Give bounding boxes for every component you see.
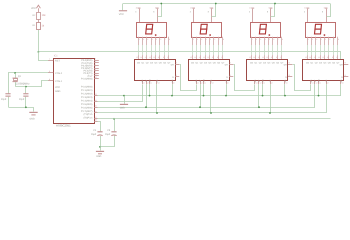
decimal point [269, 34, 271, 36]
svg-text:6: 6 [273, 38, 274, 41]
svg-text:P1.2(AIN2): P1.2(AIN2) [81, 93, 93, 96]
node junction [210, 112, 212, 114]
svg-text:4: 4 [152, 38, 153, 41]
wire SCK tap (SH pin) [149, 84, 151, 96]
wire RCK tap (ST pin) [200, 84, 202, 107]
pin XTAL1 (left) [48, 80, 53, 82]
wire SER data (MCU to IC2 DS) [98, 85, 143, 102]
wire XTAL1 net [16, 81, 49, 87]
ground symbol (crystal) [29, 112, 37, 113]
wire segment line [337, 45, 339, 55]
svg-text:G: G [285, 76, 287, 79]
svg-text:3: 3 [95, 60, 96, 63]
pin P3.0(RXD) (right stub) [94, 60, 99, 62]
pin P3.3(INT1) (right stub) [94, 68, 99, 70]
display segment pin [218, 37, 220, 45]
display segment pin [138, 37, 140, 45]
wire from P1 pin to capacitor C4 [98, 122, 101, 132]
wire segment line [218, 45, 220, 55]
display segment pin [222, 37, 224, 45]
driver input pin [159, 55, 161, 59]
svg-text:14: 14 [95, 99, 97, 102]
svg-text:P1.6(AIN6): P1.6(AIN6) [81, 106, 93, 109]
svg-text:11: 11 [95, 73, 97, 76]
pin SH (bottom) [318, 81, 320, 85]
wire OE tap [270, 84, 272, 113]
pin P1.1 (right) [94, 95, 98, 97]
svg-text:11: 11 [266, 56, 268, 59]
decimal point [155, 34, 157, 36]
pin P1.6 (right) [94, 121, 98, 123]
wire segment line [196, 45, 198, 55]
svg-text:9: 9 [217, 56, 218, 59]
wire segment line [200, 45, 202, 55]
svg-text:P3.2(INT0): P3.2(INT0) [81, 64, 92, 67]
wire SCK tap (SH pin) [318, 84, 320, 96]
svg-text:OE: OE [269, 79, 272, 82]
svg-text:QH: QH [171, 63, 175, 66]
svg-text:10: 10 [212, 56, 214, 59]
pin P1.3 (right) [94, 107, 98, 109]
svg-text:4: 4 [321, 38, 322, 41]
driver input pin [205, 55, 207, 59]
wire [101, 136, 115, 151]
svg-text:15: 15 [249, 56, 251, 59]
svg-text:Q3: Q3 [204, 62, 208, 65]
wire segment line [311, 45, 313, 55]
wire segment line [155, 45, 157, 55]
svg-text:GND: GND [120, 107, 125, 110]
pin P1.2 (right) [94, 101, 98, 103]
svg-text:MR: MR [340, 79, 343, 83]
display LED1 common-anode pin leads (top) [139, 9, 141, 22]
node junction [171, 95, 173, 97]
wire SCK tap (SH pin) [203, 84, 205, 96]
svg-text:15: 15 [95, 105, 97, 108]
supply rail VCC (top) [123, 3, 330, 5]
svg-text:G: G [226, 76, 228, 79]
svg-text:Q1: Q1 [141, 62, 145, 65]
driver input pin [146, 55, 148, 59]
IC IC3 74HC595 shift register [189, 60, 230, 81]
svg-text:QH: QH [225, 63, 229, 66]
svg-text:ST: ST [199, 79, 202, 82]
pin SH (bottom) [203, 81, 205, 85]
svg-text:5: 5 [210, 38, 211, 41]
svg-text:VCC: VCC [119, 13, 124, 16]
wire riser to VCC rail [271, 4, 275, 17]
pin ST (bottom) [314, 81, 316, 85]
svg-text:8: 8 [153, 11, 154, 14]
display segment pin [328, 37, 330, 45]
pin GND (right) [229, 76, 233, 78]
display segment pin [315, 37, 317, 45]
node rail junction [160, 3, 162, 5]
7-segment display LED3 [251, 23, 281, 38]
svg-text:5: 5 [156, 38, 157, 41]
node cap tap [25, 86, 27, 88]
svg-text:10k: 10k [42, 14, 47, 17]
wire tap (MR pin) [172, 84, 174, 96]
svg-text:MR: MR [171, 79, 174, 83]
display segment pin [259, 37, 261, 45]
pin SH (bottom) [262, 81, 264, 85]
display segment pin [209, 37, 211, 45]
svg-text:SH: SH [317, 79, 320, 82]
svg-text:XTAL2: XTAL2 [55, 72, 63, 75]
svg-text:SH: SH [202, 79, 205, 82]
driver input pin [264, 55, 266, 59]
wire OE tap [326, 84, 328, 113]
wire segment line [213, 45, 215, 55]
svg-text:14: 14 [309, 56, 311, 59]
svg-text:16: 16 [95, 110, 97, 113]
node junction [318, 95, 320, 97]
svg-text:P1.7(AIN7): P1.7(AIN7) [81, 110, 93, 113]
pin P3.1(TXD) (right stub) [94, 62, 99, 64]
svg-text:OE: OE [210, 79, 213, 82]
7-segment display LED4 [306, 23, 336, 38]
svg-text:14: 14 [253, 56, 255, 59]
svg-text:9: 9 [176, 62, 177, 65]
display segment pin [155, 37, 157, 45]
svg-text:2: 2 [197, 38, 198, 41]
svg-text:7: 7 [278, 38, 279, 41]
svg-text:2: 2 [256, 38, 257, 41]
svg-text:GND: GND [30, 118, 35, 121]
svg-text:8: 8 [282, 38, 283, 41]
wire OE tap [156, 84, 158, 113]
display segment pin [146, 37, 148, 45]
svg-text:10µF: 10µF [105, 133, 111, 136]
wire segment line [146, 45, 148, 55]
svg-text:3: 3 [147, 38, 148, 41]
display segment pin [200, 37, 202, 45]
wire segment line [222, 45, 224, 55]
pin P3.4(T0) (right stub) [94, 70, 99, 72]
wire segment line [138, 45, 140, 55]
driver input pin [277, 55, 279, 59]
svg-text:XTAL1: XTAL1 [55, 80, 63, 83]
svg-text:10: 10 [158, 56, 160, 59]
wire segment line [272, 45, 274, 55]
svg-text:Q2: Q2 [315, 62, 319, 65]
node junction [149, 95, 151, 97]
display segment pin [251, 37, 253, 45]
svg-text:G: G [341, 76, 343, 79]
pin RST (left) [48, 60, 53, 62]
svg-text:1k: 1k [42, 25, 45, 28]
7-segment display LED2 [192, 23, 222, 38]
power VCC symbol (reset chain, top-left) [36, 5, 40, 8]
wire segment line [307, 45, 309, 55]
svg-text:8: 8 [221, 56, 222, 59]
svg-text:8: 8 [267, 11, 268, 14]
wire serial chain QH' to next DS [293, 65, 311, 91]
driver input pin [315, 55, 317, 59]
svg-text:9: 9 [163, 56, 164, 59]
svg-text:P1.0(AIN0): P1.0(AIN0) [81, 86, 93, 89]
svg-text:Q5: Q5 [159, 62, 163, 65]
display segment pin [272, 37, 274, 45]
svg-text:ST: ST [258, 79, 261, 82]
svg-text:AT89C2051: AT89C2051 [56, 124, 71, 128]
display LED3 common-anode pin leads (top) [252, 9, 254, 22]
svg-text:6: 6 [329, 38, 330, 41]
svg-text:RST: RST [55, 59, 60, 62]
IC IC5 74HC595 shift register [303, 60, 344, 81]
driver input pin [307, 55, 309, 59]
svg-text:Q2: Q2 [259, 62, 263, 65]
svg-text:8: 8 [167, 56, 168, 59]
pin P3.7 (right stub) [94, 75, 99, 77]
svg-text:13: 13 [95, 93, 97, 96]
node [25, 106, 27, 108]
svg-text:C5: C5 [107, 129, 111, 132]
svg-text:QH: QH [284, 63, 288, 66]
pin MR (bottom) [284, 81, 286, 85]
driver input pin [196, 55, 198, 59]
driver input pin [324, 55, 326, 59]
IC U1 AT89C2051 microcontroller [54, 59, 95, 124]
wire segment line [209, 45, 211, 55]
svg-text:3: 3 [260, 38, 261, 41]
wire segment line [328, 45, 330, 55]
svg-text:13: 13 [199, 56, 201, 59]
wire [15, 73, 17, 78]
svg-text:P3.5(T1): P3.5(T1) [83, 72, 92, 75]
svg-text:Q1: Q1 [195, 62, 199, 65]
svg-text:13: 13 [145, 56, 147, 59]
wire riser to VCC rail [327, 4, 331, 17]
svg-text:OE: OE [156, 79, 159, 82]
svg-text:ST: ST [314, 79, 317, 82]
svg-text:Q6: Q6 [163, 62, 167, 65]
wire serial chain QH' to next DS [234, 65, 255, 91]
wire segment line [142, 45, 144, 55]
wire tap (MR pin) [226, 84, 228, 96]
display segment pin [264, 37, 266, 45]
node junction [145, 106, 147, 108]
svg-text:Q2: Q2 [200, 62, 204, 65]
pin GND (right) [288, 76, 292, 78]
display segment pin [196, 37, 198, 45]
wire segment line [320, 45, 322, 55]
pin QH' (serial out) [344, 64, 348, 66]
driver input pin [200, 55, 202, 59]
svg-text:GND: GND [55, 90, 61, 93]
wire C5 riser from GND bus [114, 119, 116, 131]
svg-text:P3.4(T0): P3.4(T0) [83, 70, 92, 73]
pin P1.5 (right) [94, 118, 98, 120]
pin OE (bottom) [326, 81, 328, 85]
display segment pin [324, 37, 326, 45]
display segment pin [268, 37, 270, 45]
pin OE (bottom) [270, 81, 272, 85]
svg-text:SH: SH [148, 79, 151, 82]
wire segment line [255, 45, 257, 55]
svg-text:2: 2 [143, 38, 144, 41]
display segment pin [281, 37, 283, 45]
node junction [203, 95, 205, 97]
svg-text:6: 6 [214, 38, 215, 41]
svg-text:3: 3 [190, 11, 191, 14]
svg-text:3: 3 [316, 38, 317, 41]
svg-text:P1.0(AIN0): P1.0(AIN0) [81, 77, 93, 80]
driver input pin [222, 55, 224, 59]
node junction [258, 106, 260, 108]
wire segment line [315, 45, 317, 55]
wire XTAL2 net [9, 73, 49, 94]
svg-text:Q5: Q5 [213, 62, 217, 65]
display segment pin [192, 37, 194, 45]
wire segment line [168, 45, 170, 55]
svg-text:5: 5 [325, 38, 326, 41]
wire to ground rail [8, 97, 10, 108]
display segment pin [142, 37, 144, 45]
wire lower net [98, 118, 331, 120]
svg-text:P1.3(AIN3): P1.3(AIN3) [81, 96, 93, 99]
wire segment line [151, 45, 153, 55]
wire SCK bus (top) [98, 95, 342, 97]
display segment pin [277, 37, 279, 45]
svg-text:Q4: Q4 [208, 62, 212, 65]
driver input pin [268, 55, 270, 59]
svg-text:12: 12 [95, 76, 97, 79]
IC IC4 74HC595 shift register [247, 60, 288, 81]
pin ST (bottom) [146, 81, 148, 85]
driver input pin [259, 55, 261, 59]
node RST junction [38, 51, 40, 53]
svg-text:3: 3 [249, 11, 250, 14]
svg-text:18: 18 [95, 119, 97, 122]
display segment pin [168, 37, 170, 45]
svg-text:8: 8 [322, 11, 323, 14]
pin ST (bottom) [258, 81, 260, 85]
wire RST to MCU [39, 52, 49, 61]
svg-text:Q1: Q1 [310, 62, 314, 65]
display segment pin [205, 37, 207, 45]
svg-text:R1: R1 [33, 24, 37, 27]
svg-text:8: 8 [208, 11, 209, 14]
wire segment line [268, 45, 270, 55]
svg-text:R2: R2 [33, 14, 37, 17]
svg-text:Q1: Q1 [18, 75, 22, 78]
capacitor C3 22pF [23, 93, 28, 94]
svg-text:MR: MR [284, 79, 287, 83]
capacitor C4 100nF [97, 131, 102, 132]
node crystal top tap [14, 72, 16, 74]
driver input pin [168, 55, 170, 59]
crystal Q1 11.0592MHz [13, 78, 18, 79]
svg-text:15: 15 [305, 56, 307, 59]
svg-text:9: 9 [230, 62, 231, 65]
wire riser to VCC rail [158, 4, 162, 17]
pin DS (bottom) [310, 81, 312, 85]
svg-text:ST: ST [145, 79, 148, 82]
wire tap (MR pin) [284, 84, 286, 96]
svg-text:P3.7: P3.7 [88, 75, 93, 78]
svg-text:P3.1(TXD): P3.1(TXD) [82, 62, 93, 65]
svg-text:7: 7 [334, 38, 335, 41]
svg-text:MR: MR [225, 79, 228, 83]
svg-text:10: 10 [271, 56, 273, 59]
svg-text:14: 14 [140, 56, 142, 59]
wire tap (MR pin) [340, 84, 342, 96]
svg-text:7: 7 [165, 38, 166, 41]
pin XTAL2 (left) [48, 72, 53, 74]
display LED4 common-anode pin leads (top) [307, 9, 309, 22]
driver input pin [255, 55, 257, 59]
svg-text:3: 3 [135, 11, 136, 14]
svg-text:15: 15 [136, 56, 138, 59]
svg-text:13: 13 [314, 56, 316, 59]
pin P1.4 (right) [94, 112, 98, 114]
ground symbol (bottom) [96, 151, 104, 152]
wire segment line [192, 45, 194, 55]
svg-text:C4: C4 [93, 129, 97, 132]
pin SH (bottom) [149, 81, 151, 85]
wire OE tap [210, 84, 212, 113]
driver input pin [209, 55, 211, 59]
svg-text:QH: QH [340, 63, 344, 66]
svg-text:Q5: Q5 [272, 62, 276, 65]
svg-text:9: 9 [332, 56, 333, 59]
node rail junction [274, 3, 276, 5]
wire [100, 136, 102, 147]
svg-text:6: 6 [160, 38, 161, 41]
svg-text:IC1: IC1 [54, 55, 59, 58]
svg-text:12: 12 [318, 56, 320, 59]
svg-text:8: 8 [95, 68, 96, 71]
driver input pin [333, 55, 335, 59]
display LED2 common-anode pin leads (top) [193, 9, 195, 22]
svg-text:13: 13 [258, 56, 260, 59]
svg-text:12: 12 [149, 56, 151, 59]
wire crystal bottom [15, 82, 17, 87]
svg-text:DS: DS [310, 79, 313, 82]
svg-text:P1.1(AIN1): P1.1(AIN1) [81, 89, 93, 92]
driver input pin [138, 55, 140, 59]
driver input pin [218, 55, 220, 59]
svg-text:1: 1 [139, 38, 140, 41]
driver input pin [213, 55, 215, 59]
node rail junction [215, 3, 217, 5]
decimal point [209, 34, 211, 36]
pin ST (bottom) [200, 81, 202, 85]
svg-text:Q6: Q6 [276, 62, 280, 65]
svg-text:15: 15 [190, 56, 192, 59]
svg-text:8: 8 [169, 38, 170, 41]
svg-text:12: 12 [262, 56, 264, 59]
pin MR (bottom) [340, 81, 342, 85]
svg-text:Q1: Q1 [254, 62, 258, 65]
wire OE bus [98, 112, 327, 114]
driver input pin [311, 55, 313, 59]
svg-text:Q2: Q2 [146, 62, 150, 65]
svg-text:(T1)P3.5: (T1)P3.5 [83, 113, 93, 116]
driver input pin [142, 55, 144, 59]
driver input pin [320, 55, 322, 59]
svg-text:2: 2 [312, 38, 313, 41]
display segment pin [151, 37, 153, 45]
pin QH' (serial out) [229, 64, 233, 66]
wire RCK tap (ST pin) [314, 84, 316, 107]
wire segment line [277, 45, 279, 55]
wire riser to VCC rail [212, 4, 216, 17]
svg-text:9: 9 [95, 71, 96, 74]
svg-text:4: 4 [265, 38, 266, 41]
